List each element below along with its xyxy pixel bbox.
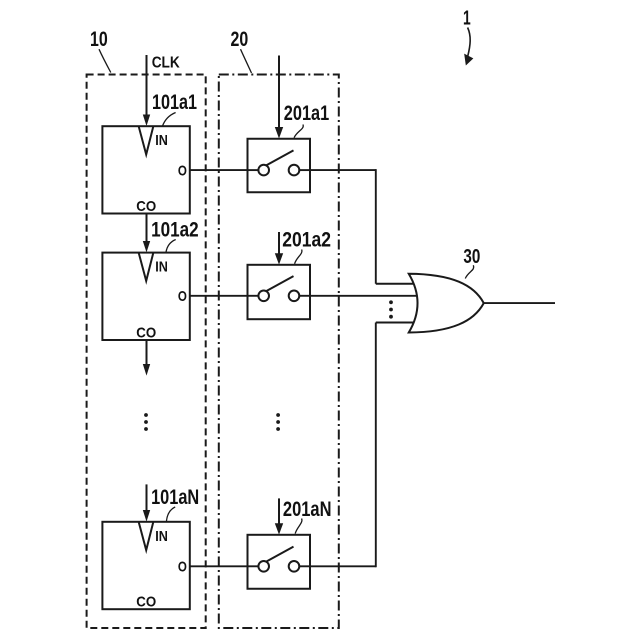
wire into counter N arrow [143, 484, 150, 521]
pin label CO counter 1 [136, 199, 156, 215]
svg-text:CLK: CLK [152, 55, 181, 72]
switch S201a2 box [248, 265, 311, 319]
label 20 [231, 28, 249, 51]
wire counter2 O to switch2 to OR gate [190, 295, 419, 297]
switch S201aN control arrow [275, 498, 283, 534]
pin label IN counter 1 [155, 133, 168, 149]
label 30 [463, 246, 480, 268]
label 10 [90, 28, 108, 51]
clock input V symbol counter 2 [139, 253, 153, 281]
leader line for 10 [99, 49, 111, 72]
leader line for 101aN [166, 507, 175, 521]
pin label IN counter 2 [155, 260, 168, 276]
pin label CO counter N [136, 595, 156, 611]
wire OR gate output [484, 302, 556, 304]
pin label IN counter N [155, 529, 168, 545]
svg-text:10: 10 [90, 28, 108, 51]
svg-text:CO: CO [136, 595, 156, 611]
counter block box 10 (dashed border) [87, 75, 206, 629]
svg-text:30: 30 [463, 246, 480, 268]
leader line for 30 [465, 265, 473, 278]
leader line for 201a2 [295, 250, 302, 264]
label 201a2 [282, 229, 331, 252]
svg-text:101a1: 101a1 [152, 91, 197, 114]
CLK label [152, 55, 181, 72]
svg-text:201a2: 201a2 [282, 229, 331, 252]
label 101aN [151, 486, 199, 509]
pin label O counter 1 [178, 163, 187, 180]
label 101a1 [152, 91, 197, 114]
svg-text:1: 1 [463, 8, 471, 30]
switch block box 20 (dash-dot border) [219, 75, 339, 629]
label 1 (overall circuit) [463, 8, 471, 30]
leader line for 201aN [295, 519, 302, 534]
svg-text:101aN: 101aN [151, 486, 199, 509]
counter U101a1 box [102, 126, 189, 213]
switch S201a1 box [248, 139, 311, 193]
leader line for 201a1 [294, 125, 303, 138]
switch S201aN box [248, 535, 311, 589]
label 201aN [283, 498, 332, 521]
switch S201a2 control arrow [275, 232, 283, 265]
pin label CO counter 2 [136, 325, 156, 341]
switch S201aN contacts [248, 547, 311, 572]
wire counter1 O to switch1 and bus [190, 169, 416, 284]
svg-text:O: O [178, 163, 187, 180]
svg-text:201a1: 201a1 [284, 102, 330, 125]
pin label O counter 2 [178, 288, 187, 305]
svg-text:CO: CO [136, 325, 156, 341]
wire CLK input [143, 55, 150, 126]
ellipsis dots switch column [276, 413, 280, 431]
svg-text:IN: IN [155, 133, 168, 149]
label 101a2 [151, 219, 199, 242]
svg-text:20: 20 [231, 28, 249, 51]
ellipsis dots OR gate inputs [389, 300, 393, 318]
svg-text:101a2: 101a2 [151, 219, 199, 242]
svg-text:O: O [178, 288, 187, 305]
pin label O counter N [178, 559, 187, 576]
wire CO2 arrow down [143, 340, 150, 376]
switch S201a2 contacts [248, 276, 311, 301]
clock input V symbol counter N [139, 522, 153, 550]
switch S201a1 control arrow [275, 56, 283, 139]
counter U101a2 box [102, 253, 189, 340]
OR gate 30 [409, 274, 484, 333]
wire CO1 to IN2 arrow [143, 214, 150, 253]
leader line for 101a2 [166, 240, 176, 253]
svg-text:IN: IN [155, 260, 168, 276]
svg-text:IN: IN [155, 529, 168, 545]
leader arrow for 1 [465, 28, 473, 65]
ellipsis dots counter column [144, 413, 148, 431]
svg-text:O: O [178, 559, 187, 576]
leader line for 20 [241, 49, 252, 73]
svg-text:201aN: 201aN [283, 498, 332, 521]
counter U101aN box [102, 522, 189, 609]
switch S201a1 contacts [248, 150, 311, 175]
svg-text:CO: CO [136, 199, 156, 215]
clock input V symbol counter 1 [139, 127, 153, 155]
label 201a1 [284, 102, 330, 125]
wire counterN O to switchN and bus [190, 323, 416, 568]
leader line for 101a1 [163, 113, 176, 127]
